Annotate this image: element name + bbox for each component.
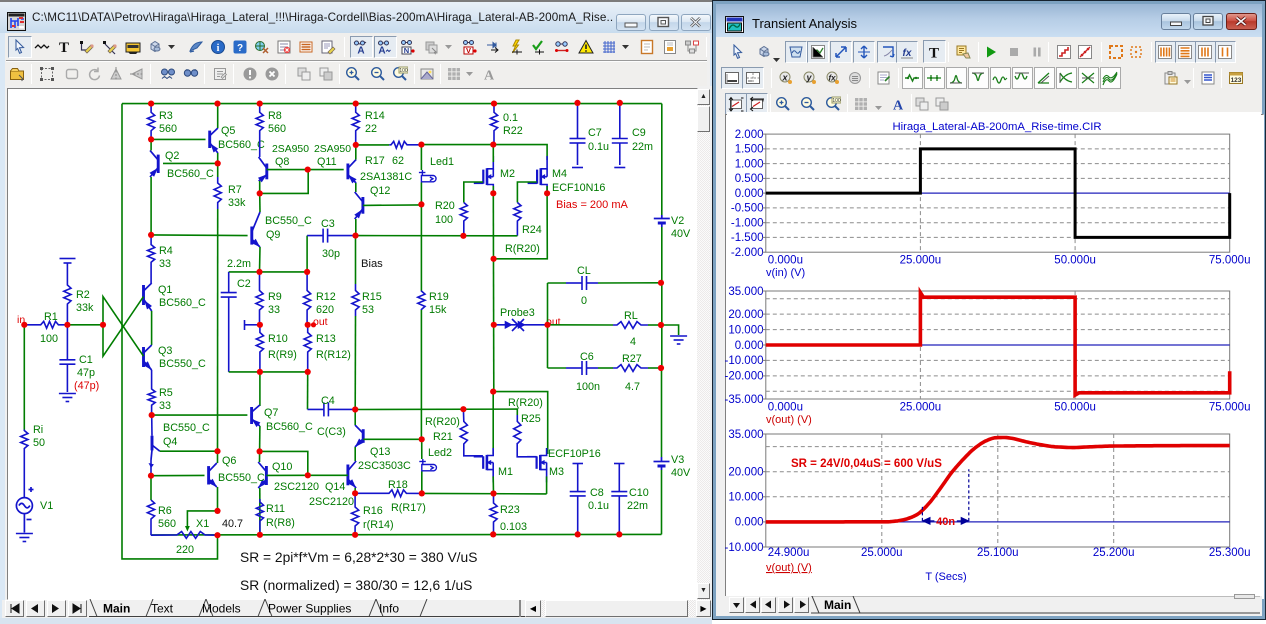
svg-text:33k: 33k — [228, 197, 246, 209]
svg-text:A: A — [484, 69, 495, 83]
svg-text:20.000: 20.000 — [728, 467, 763, 479]
wire gate rail to M4 drain — [421, 145, 547, 160]
svg-text:25.000u: 25.000u — [900, 255, 942, 267]
svg-text:T: T — [59, 40, 69, 55]
node Q6-emitter — [214, 508, 220, 514]
wire input column — [23, 325, 25, 430]
node rail-C7 — [574, 100, 580, 106]
svg-text:R4: R4 — [159, 245, 173, 257]
capacitor C10 — [611, 464, 627, 535]
node Q11-emitter — [353, 142, 359, 148]
svg-text:R15: R15 — [362, 291, 382, 303]
node Q13-base — [419, 436, 425, 442]
svg-text:2.2m: 2.2m — [227, 258, 251, 270]
svg-text:Main: Main — [103, 602, 130, 616]
svg-text:M4: M4 — [552, 168, 567, 180]
capacitor C6 — [566, 361, 598, 375]
wire Led1 top — [420, 145, 422, 170]
wire input to cross — [67, 324, 103, 326]
svg-text:-2.000: -2.000 — [731, 247, 764, 259]
node Q14-emitter — [352, 490, 358, 496]
svg-text:BC550_C: BC550_C — [218, 472, 265, 484]
resistor R22 — [490, 104, 497, 145]
wire Q11 emitter up — [355, 145, 357, 160]
svg-text:(47p): (47p) — [74, 380, 99, 392]
wire right rail lower — [661, 368, 663, 457]
svg-text:x: x — [781, 73, 788, 83]
svg-text:C7: C7 — [588, 127, 602, 139]
svg-text:R11: R11 — [266, 503, 285, 515]
wire to R17 — [356, 144, 390, 146]
wire to C6 — [548, 367, 567, 369]
wire C2 bottom row — [229, 371, 308, 373]
node R13-bottom — [305, 369, 311, 375]
chart2 v(out) red square wave — [766, 293, 1230, 396]
capacitor C4 — [308, 402, 356, 416]
wire Led2 top — [421, 439, 423, 459]
node rail-R8 — [257, 101, 263, 107]
svg-text:2SC3503C: 2SC3503C — [358, 460, 411, 472]
svg-text:R(R8): R(R8) — [266, 517, 295, 529]
svg-text:C3: C3 — [321, 218, 335, 230]
svg-text:33: 33 — [268, 304, 280, 316]
wire bottom rail — [151, 533, 662, 536]
resistor R5 — [148, 370, 155, 415]
svg-text:R3: R3 — [159, 110, 173, 122]
svg-text:Q8: Q8 — [275, 156, 289, 168]
svg-text:25.300u: 25.300u — [1209, 547, 1251, 559]
MOSFET M1 — [474, 448, 494, 482]
svg-text:R9: R9 — [268, 291, 282, 303]
svg-text:R12: R12 — [316, 291, 336, 303]
node rail-R23 — [490, 531, 496, 537]
node rail-Q5 — [214, 101, 220, 107]
resistor R9 — [256, 272, 263, 325]
wire Q7 base row — [152, 414, 248, 416]
transistor Q10 — [258, 462, 266, 488]
svg-text:V1: V1 — [40, 500, 53, 512]
svg-text:Q12: Q12 — [370, 185, 390, 197]
resistor R15 — [352, 284, 359, 316]
svg-text:100: 100 — [399, 68, 408, 74]
capacitor C3 — [307, 229, 355, 243]
svg-text:20.000: 20.000 — [728, 309, 763, 321]
wire Q13 base to Led2 node — [363, 438, 422, 440]
wire Q8 base to node — [267, 169, 308, 171]
wire M3 source down — [546, 476, 548, 494]
svg-text:BC560_C: BC560_C — [266, 421, 313, 433]
node rail-R22 — [491, 101, 497, 107]
svg-text:R22: R22 — [503, 125, 523, 137]
resistor R3 — [148, 104, 155, 140]
wire Q9 base row — [151, 234, 248, 237]
svg-text:22: 22 — [365, 123, 377, 135]
svg-text:ECF10N16: ECF10N16 — [552, 182, 605, 194]
svg-text:2SA1381C: 2SA1381C — [360, 171, 412, 183]
resistor R6 — [147, 500, 154, 535]
svg-text:4.7: 4.7 — [625, 381, 640, 393]
svg-text:R24: R24 — [522, 224, 542, 236]
ground below V1 — [16, 534, 33, 542]
wire X1 wiper — [187, 511, 217, 528]
svg-text:y: y — [805, 73, 812, 83]
resistor R18 — [355, 490, 422, 497]
svg-text:4: 4 — [630, 336, 636, 348]
svg-text:53: 53 — [362, 304, 374, 316]
svg-text:N: N — [404, 46, 409, 55]
wire source row — [422, 492, 547, 495]
node Q12-base — [418, 201, 424, 207]
wire to CL — [548, 282, 567, 284]
svg-text:47p: 47p — [77, 367, 95, 379]
wire Q10 collector up — [259, 451, 261, 462]
svg-text:Q10: Q10 — [272, 461, 292, 473]
node R9-R10 — [257, 322, 263, 328]
svg-text:22m: 22m — [632, 141, 653, 153]
svg-text:33k: 33k — [76, 302, 94, 314]
right window bottom tab bar — [716, 596, 1262, 613]
svg-text:SR = 24V/0,04uS = 600 V/uS: SR = 24V/0,04uS = 600 V/uS — [791, 458, 942, 470]
svg-text:22m: 22m — [627, 500, 648, 512]
node M4-source — [544, 190, 550, 196]
node R10-bottom — [257, 369, 263, 375]
wire node to Q11 base — [308, 169, 344, 171]
node R20-bottom — [460, 233, 466, 239]
svg-text:2SA950: 2SA950 — [314, 144, 351, 155]
wire top rail — [122, 103, 662, 105]
svg-text:Text: Text — [151, 602, 174, 616]
svg-text:R(R20): R(R20) — [508, 397, 543, 409]
node rail-R16 — [352, 532, 358, 538]
plot frame chart3 — [766, 434, 1230, 547]
capacitor C9 — [612, 103, 628, 168]
wire R10 to Q7 emitter — [259, 372, 261, 406]
capacitor C1 — [59, 325, 75, 392]
wire Q13 collector up — [354, 410, 356, 426]
wire right rail upper — [661, 104, 663, 215]
node M2-source — [490, 190, 496, 196]
svg-text:M1: M1 — [498, 466, 513, 478]
node M4-tie — [491, 256, 497, 262]
svg-text:R18: R18 — [388, 479, 408, 491]
plot frame chart2 — [766, 291, 1230, 399]
wire Q4 collector row — [160, 450, 218, 452]
svg-text:-0.500: -0.500 — [731, 203, 764, 215]
resistor R1 — [24, 321, 67, 328]
svg-text:Bias = 200 mA: Bias = 200 mA — [556, 199, 629, 211]
svg-text:fx: fx — [828, 74, 836, 83]
wire R27 to rail — [648, 367, 661, 369]
node M-drain — [490, 389, 496, 395]
wire Q2 collector down — [150, 177, 152, 235]
wire Q1-Q3 tie — [151, 311, 153, 345]
wire left rail and bottom loop — [122, 104, 218, 559]
svg-text:A: A — [893, 99, 904, 113]
wire Q14 emitter down — [354, 488, 356, 493]
svg-text:V3: V3 — [671, 454, 684, 466]
chart1 v(in) black square wave — [766, 149, 1230, 238]
svg-text:R19: R19 — [429, 291, 449, 303]
left window vertical scrollbar — [697, 89, 710, 600]
svg-text:R27: R27 — [622, 353, 642, 365]
svg-text:40.7: 40.7 — [222, 518, 243, 530]
svg-text:?: ? — [237, 43, 243, 54]
resistor R17 — [389, 141, 421, 148]
transistor Q14 — [348, 461, 356, 488]
svg-text:25.100u: 25.100u — [977, 547, 1019, 559]
transistor Q3 — [144, 345, 152, 370]
svg-text:R6: R6 — [158, 505, 172, 517]
svg-text:100: 100 — [435, 214, 453, 226]
wire R3 to Q5 base — [151, 138, 205, 140]
svg-text:BC560_C: BC560_C — [159, 297, 206, 309]
svg-text:-10.000: -10.000 — [724, 355, 763, 367]
svg-text:C(C3): C(C3) — [317, 426, 346, 438]
wire bias row — [356, 235, 518, 237]
svg-text:Q4: Q4 — [163, 436, 177, 448]
svg-text:Led2: Led2 — [428, 447, 452, 459]
svg-text:R(R9): R(R9) — [268, 349, 297, 361]
svg-text:Q2: Q2 — [165, 150, 179, 162]
node C3-bias — [352, 233, 358, 239]
svg-text:100: 100 — [832, 98, 841, 104]
wire Q7 collector down — [259, 426, 261, 451]
wire Q6 emitter down — [217, 487, 219, 511]
svg-text:-20.000: -20.000 — [724, 371, 763, 383]
svg-text:1.000: 1.000 — [735, 158, 764, 170]
left window bottom tab bar — [2, 600, 710, 618]
chart1 zero axis — [766, 192, 1230, 194]
wire Q12 base — [363, 204, 422, 207]
node R7-bottom — [214, 448, 220, 454]
LED Led2 — [419, 459, 436, 471]
svg-text:2SA950: 2SA950 — [272, 144, 309, 155]
resistor R13 — [304, 325, 311, 372]
svg-text:R2: R2 — [76, 289, 90, 301]
svg-text:v(out) (V): v(out) (V) — [766, 562, 812, 574]
wire to M3 drain — [493, 392, 548, 454]
wire RL to ground — [661, 325, 679, 335]
svg-text:Led1: Led1 — [430, 156, 454, 168]
svg-text:50.000u: 50.000u — [1054, 255, 1096, 267]
svg-text:BC550_C: BC550_C — [265, 215, 312, 227]
wire Q8 collector down — [259, 181, 261, 193]
left schematic editor window — [0, 0, 712, 624]
node rail-R14 — [353, 101, 359, 107]
svg-text:620: 620 — [316, 304, 334, 316]
wire Q9 emitter down — [259, 247, 262, 272]
wire to R7 — [217, 163, 219, 177]
svg-text:40V: 40V — [671, 467, 691, 479]
wire Q12 collector down — [355, 219, 357, 236]
svg-text:R23: R23 — [500, 504, 520, 516]
svg-text:-1.500: -1.500 — [731, 232, 764, 244]
svg-text:C2: C2 — [237, 278, 251, 290]
ground tap at R9-R10 node — [245, 320, 259, 330]
svg-text:220: 220 — [176, 544, 194, 556]
potentiometer X1 — [151, 532, 218, 539]
node M1-source — [490, 490, 496, 496]
transistor Q11 — [348, 160, 356, 184]
wire out column — [547, 283, 549, 368]
svg-text:Q1: Q1 — [158, 284, 172, 296]
wire M4 source — [546, 186, 548, 193]
svg-text:RL: RL — [624, 310, 638, 322]
wire RL to rail — [648, 324, 661, 326]
LED Led1 — [419, 170, 436, 182]
wire R13 bottom to C4 — [307, 372, 309, 410]
svg-text:25.000u: 25.000u — [900, 402, 942, 414]
svg-text:R(R20): R(R20) — [505, 243, 540, 255]
MOSFET M2 — [474, 156, 494, 192]
resistor R19 — [418, 291, 425, 311]
svg-text:75.000u: 75.000u — [1209, 402, 1251, 414]
svg-text:-35.000: -35.000 — [724, 394, 763, 406]
svg-text:Q7: Q7 — [264, 407, 278, 419]
node R3-Q2 — [148, 136, 154, 142]
svg-text:10.000: 10.000 — [728, 324, 763, 336]
svg-text:R16: R16 — [363, 505, 383, 517]
svg-text:C4: C4 — [321, 395, 335, 407]
svg-text:SR = 2pi*f*Vm = 6,28*2*30 = 38: SR = 2pi*f*Vm = 6,28*2*30 = 380 V/uS — [240, 550, 477, 565]
wire column to R19 — [420, 204, 422, 290]
svg-text:33: 33 — [159, 258, 171, 270]
node Q7-coll — [257, 448, 263, 454]
svg-text:BC550_C: BC550_C — [159, 358, 206, 370]
svg-text:BC560_C: BC560_C — [167, 168, 214, 180]
svg-text:0.000: 0.000 — [735, 517, 764, 529]
svg-text:35.000: 35.000 — [728, 286, 763, 298]
ground at RL — [670, 336, 687, 344]
svg-text:24.900u: 24.900u — [768, 547, 810, 559]
resistor R12 — [304, 272, 311, 325]
wire C6 to R27 — [598, 367, 613, 369]
svg-text:C9: C9 — [632, 127, 646, 139]
ground below C1 — [59, 394, 76, 402]
battery V3 — [654, 457, 670, 470]
wire R19 to Q13 base node — [420, 310, 422, 439]
svg-text:T: T — [929, 46, 939, 61]
node RL-rail — [658, 322, 664, 328]
wire Q9 collector up — [259, 193, 261, 212]
svg-text:X1: X1 — [196, 518, 209, 530]
node R21-top — [460, 406, 466, 412]
svg-text:Q9: Q9 — [266, 229, 280, 241]
svg-text:Ri: Ri — [33, 424, 43, 436]
svg-text:R(R17): R(R17) — [391, 502, 426, 514]
svg-text:Q11: Q11 — [317, 156, 337, 168]
svg-text:T (Secs): T (Secs) — [925, 571, 966, 583]
resistor Ri — [21, 430, 28, 498]
node rail-C9 — [617, 100, 623, 106]
node Led2-bottom — [419, 490, 425, 496]
node out — [544, 322, 550, 328]
svg-text:C8: C8 — [590, 487, 604, 499]
svg-text:0.000: 0.000 — [735, 188, 764, 200]
svg-text:Probe3: Probe3 — [500, 307, 535, 319]
svg-text:i: i — [217, 43, 220, 54]
resistor R4 — [148, 235, 155, 283]
wire R12 top to C3 — [306, 236, 308, 272]
svg-text:ECF10P16: ECF10P16 — [548, 448, 601, 460]
resistor R2 — [64, 284, 71, 325]
svg-text:V: V — [466, 46, 471, 55]
svg-text:2SC2120: 2SC2120 — [309, 496, 354, 508]
battery V2 — [654, 215, 670, 227]
svg-text:R5: R5 — [159, 387, 173, 399]
svg-text:25.000u: 25.000u — [861, 547, 903, 559]
svg-text:560: 560 — [268, 123, 286, 135]
transistor Q6 — [209, 463, 217, 487]
transistor Q1 — [144, 283, 152, 311]
wire right rail mid — [661, 227, 663, 368]
svg-text:2SC2120: 2SC2120 — [274, 481, 319, 493]
svg-text:R14: R14 — [365, 110, 385, 122]
resistor R14 — [352, 104, 359, 145]
svg-text:CL: CL — [577, 265, 591, 277]
node C6-rail — [658, 365, 664, 371]
svg-text:0.000u: 0.000u — [768, 402, 803, 414]
svg-text:Main: Main — [824, 598, 851, 612]
svg-text:1.500: 1.500 — [735, 144, 764, 156]
svg-text:50: 50 — [33, 437, 45, 449]
capacitor C7 — [570, 103, 586, 168]
transistor Q13 — [355, 425, 363, 447]
resistor R8 — [256, 104, 263, 157]
capacitor CL — [566, 276, 598, 290]
svg-text:Q6: Q6 — [222, 455, 236, 467]
svg-text:62: 62 — [392, 155, 404, 167]
svg-text:R17: R17 — [365, 155, 385, 167]
node Q10-Q14-base — [305, 472, 311, 478]
node rail-R3 — [148, 101, 154, 107]
svg-text:R(R12): R(R12) — [316, 349, 351, 361]
svg-text:100n: 100n — [576, 381, 600, 393]
svg-text:0.1u: 0.1u — [588, 141, 609, 153]
svg-text:0.1u: 0.1u — [588, 500, 609, 512]
node in — [21, 322, 27, 328]
wire out to RL — [548, 324, 614, 326]
wire Led2 bottom — [421, 472, 423, 494]
node R5-bottom — [149, 412, 155, 418]
svg-text:C1: C1 — [79, 354, 93, 366]
resistor R27 — [613, 365, 648, 372]
transistor Q9 — [252, 212, 260, 247]
wire Q6 collector up — [217, 451, 219, 463]
svg-text:123: 123 — [1230, 77, 1241, 84]
wire M4 source to column — [494, 193, 548, 258]
svg-text:35.000: 35.000 — [728, 429, 763, 441]
transistor Q8 — [259, 157, 267, 181]
wire Q5 emitter to rail — [217, 104, 219, 128]
svg-text:R(R20): R(R20) — [425, 416, 460, 428]
svg-text:25.200u: 25.200u — [1093, 547, 1135, 559]
top bar above R2 — [60, 259, 76, 285]
svg-text:Bias: Bias — [361, 258, 383, 270]
wire CL to rail — [598, 282, 661, 284]
svg-text:R10: R10 — [268, 333, 288, 345]
node Q8-coll — [257, 190, 263, 196]
svg-text:0.500: 0.500 — [735, 173, 764, 185]
transistor Q5 — [210, 128, 218, 153]
plot frame chart1 — [766, 134, 1230, 252]
svg-text:A: A — [357, 46, 364, 56]
node C4-right — [352, 406, 358, 412]
capacitor C8 — [570, 464, 586, 535]
measurement 40n annotation — [922, 469, 968, 524]
node probe-left — [491, 322, 497, 328]
svg-text:v(out) (V): v(out) (V) — [766, 414, 812, 426]
